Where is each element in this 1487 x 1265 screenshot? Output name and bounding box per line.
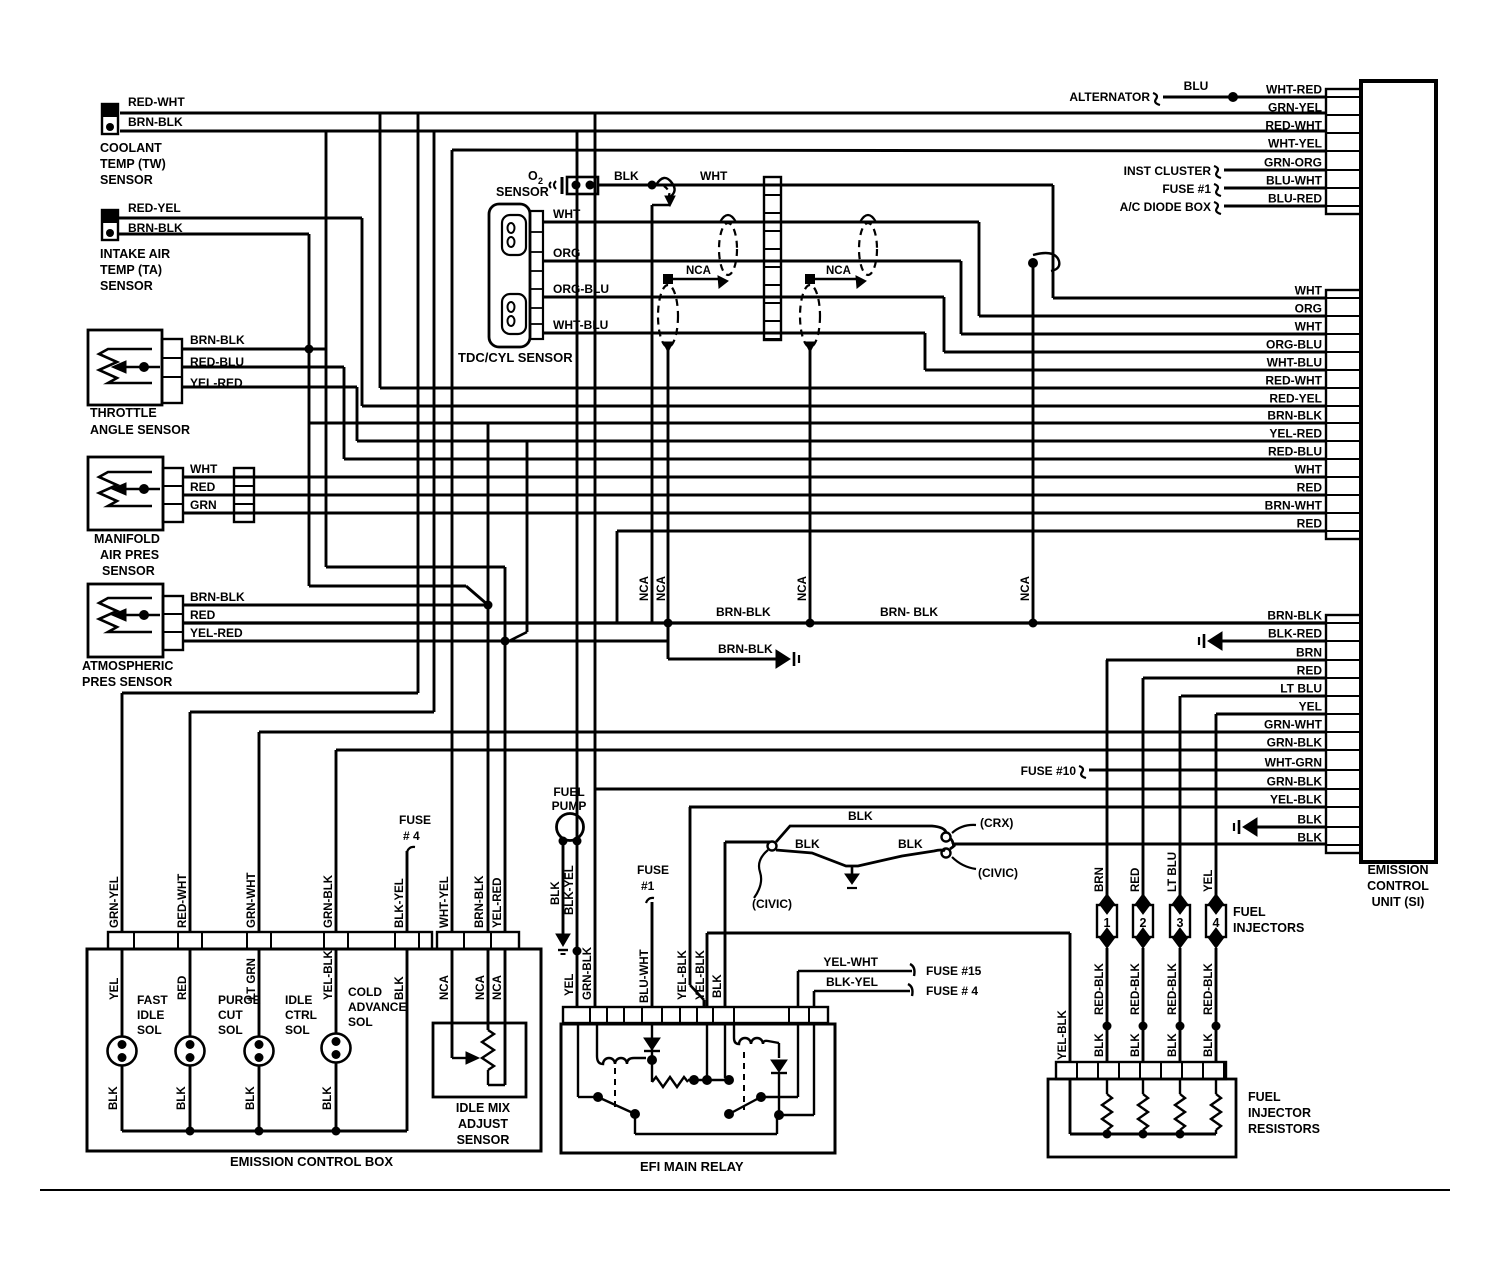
svg-text:NCA: NCA <box>826 265 851 277</box>
wire RED injector 2 vertical <box>1142 678 1145 896</box>
junction dot bus 1 <box>664 619 673 628</box>
svg-text:RED-WHT: RED-WHT <box>177 874 189 928</box>
alternator squiggle <box>1153 93 1160 105</box>
svg-text:WHT-YEL: WHT-YEL <box>439 876 451 928</box>
svg-text:PURGE: PURGE <box>218 993 261 1007</box>
svg-text:ATMOSPHERIC: ATMOSPHERIC <box>82 659 173 673</box>
wire BLU-WHT fuse#1 to ECU <box>1224 187 1326 190</box>
svg-text:FUEL: FUEL <box>1248 1090 1281 1104</box>
wire BLU alternator to ECU WHT-RED <box>1163 96 1326 99</box>
svg-text:EMISSION CONTROL BOX: EMISSION CONTROL BOX <box>230 1154 393 1169</box>
svg-text:BRN- BLK: BRN- BLK <box>880 605 938 619</box>
svg-text:FAST: FAST <box>137 993 168 1007</box>
svg-text:SENSOR: SENSOR <box>496 185 549 199</box>
svg-text:SENSOR: SENSOR <box>102 564 155 578</box>
svg-text:ORG-BLU: ORG-BLU <box>553 282 609 296</box>
wire RED-BLU throttle <box>182 366 344 369</box>
intake air temp sensor connector <box>102 210 118 240</box>
wire WHT tdc <box>543 221 979 224</box>
junction dot sol 3 <box>255 1127 264 1136</box>
wire RED atmospheric / BRN-BLK bus <box>183 621 1326 624</box>
fuel injector 1 <box>1097 905 1117 937</box>
harness wire BLK bottom <box>776 850 945 866</box>
wire WHT-GRN fuse10 to ECU <box>1089 769 1326 772</box>
svg-text:ADVANCE: ADVANCE <box>348 1000 406 1014</box>
wire GRN-YEL link <box>122 692 418 695</box>
wire YEL-WHT fuse15 <box>797 971 800 1007</box>
svg-text:1: 1 <box>1104 916 1111 930</box>
wire WHT-YEL long (y150) <box>452 150 1326 151</box>
svg-text:RED-WHT: RED-WHT <box>1265 374 1322 388</box>
wire YEL-BLK resistor feed <box>1069 933 1072 1062</box>
wire vertical coolant BRN-BLK <box>325 132 328 567</box>
svg-text:FUSE: FUSE <box>399 813 431 827</box>
svg-text:GRN: GRN <box>190 498 217 512</box>
relay switch 2 contact b <box>724 1109 734 1119</box>
wire BRN-BLK ground stub <box>667 623 670 659</box>
relay junction d2 <box>774 1110 784 1120</box>
relay junction r3 <box>724 1075 734 1085</box>
svg-text:GRN-BLK: GRN-BLK <box>582 946 594 1000</box>
svg-text:RED: RED <box>177 976 189 1000</box>
atmospheric pres sensor box <box>88 584 163 657</box>
wire BRN injector 1 vertical <box>1106 660 1109 896</box>
svg-text:FUSE #1: FUSE #1 <box>1162 182 1211 196</box>
relay coil 1 <box>596 1023 598 1056</box>
solenoid PURGE CUT SOL wire top <box>189 949 192 1037</box>
fuse1 arrow <box>646 898 654 903</box>
junction dot res 2 <box>1139 1130 1148 1139</box>
wire BRN-BLK to ECU <box>309 422 1326 425</box>
tall shield loop 1 <box>658 285 678 347</box>
emission box connector strip right <box>437 932 519 949</box>
fuel injector 4 <box>1206 905 1226 937</box>
wire RED-BLK injector 3 <box>1179 948 1182 1062</box>
svg-text:YEL-WHT: YEL-WHT <box>823 955 878 969</box>
TDC connector stubs <box>530 211 543 339</box>
throttle angle sensor box <box>88 330 162 405</box>
shield loop 2 <box>859 223 877 275</box>
wire vertical YEL-BLK pin2 <box>706 933 709 1007</box>
svg-text:ADJUST: ADJUST <box>458 1117 508 1131</box>
relay junction 1 <box>647 1055 657 1065</box>
svg-text:BLK: BLK <box>322 1086 334 1110</box>
civic right leader <box>952 857 976 869</box>
wire YEL-RED atmospheric <box>183 640 668 643</box>
wire NCA3 into box <box>504 949 507 1085</box>
svg-text:NCA: NCA <box>439 975 451 1000</box>
svg-text:BLK: BLK <box>614 169 639 183</box>
svg-text:# 4: # 4 <box>403 829 420 843</box>
relay switch 2 contact a <box>756 1092 766 1102</box>
O2 loop hook <box>656 178 675 197</box>
relay switch 1 contact a <box>593 1092 603 1102</box>
wire BRN-BLK/RED-WHT top long (y131) <box>120 130 1326 133</box>
wire horizontal BRN-BLK link <box>309 585 466 588</box>
svg-text:RED-BLK: RED-BLK <box>1094 963 1106 1015</box>
wire ORG to ECU <box>979 315 1326 318</box>
injector resistor 3 <box>1179 1079 1181 1094</box>
wire vertical GRN-BLK <box>335 750 338 932</box>
wire BRN-BLK intake horizontal <box>118 233 309 236</box>
junction dot injector 4 <box>1212 1022 1221 1031</box>
svg-text:BRN-BLK: BRN-BLK <box>474 875 486 928</box>
TDC/CYL sensor box <box>489 204 530 347</box>
ECU connector stub group 1 <box>1326 89 1361 214</box>
svg-text:YEL: YEL <box>564 974 576 996</box>
wire ORG tdc vertical <box>960 261 963 334</box>
svg-text:YEL: YEL <box>1299 700 1322 714</box>
svg-text:RED: RED <box>190 608 216 622</box>
idle mix resistor <box>482 1030 494 1070</box>
svg-text:BLU-WHT: BLU-WHT <box>1266 174 1323 188</box>
svg-text:YEL-BLK: YEL-BLK <box>1057 1009 1069 1060</box>
fuse4 arrow <box>407 847 415 852</box>
solenoid ground bus <box>122 1130 407 1133</box>
NCA pointer 1 <box>663 274 673 284</box>
injector resistor 4 <box>1215 1079 1217 1094</box>
fuel injector resistor box <box>1048 1079 1236 1157</box>
svg-text:GRN-BLK: GRN-BLK <box>1267 775 1323 789</box>
svg-text:BLK: BLK <box>795 837 820 851</box>
wire ORG tdc <box>543 260 961 263</box>
svg-text:YEL-RED: YEL-RED <box>1269 427 1322 441</box>
resistor ground bus <box>1070 1133 1216 1136</box>
junction dot sol 4 <box>332 1127 341 1136</box>
svg-text:BLK: BLK <box>898 837 923 851</box>
TDC coil 2 <box>502 294 526 334</box>
svg-text:(CIVIC): (CIVIC) <box>978 866 1018 880</box>
svg-text:BLK: BLK <box>1094 1033 1106 1057</box>
wire BLK ground to ECU <box>1257 826 1326 829</box>
fuse #10 squiggle <box>1079 766 1086 778</box>
svg-text:YEL-BLK: YEL-BLK <box>695 949 707 1000</box>
svg-text:WHT: WHT <box>1295 284 1323 298</box>
loop-dot connector d <box>1028 258 1038 268</box>
solenoid COLD ADVANCE SOL wire top <box>335 949 338 1034</box>
wire GRN-BLK2 to ECU <box>595 788 1326 791</box>
solenoid IDLE wire bottom <box>258 1065 261 1131</box>
harness wire BLK top <box>776 826 946 842</box>
svg-text:CONTROL: CONTROL <box>1367 879 1429 893</box>
ground symbol BLK-RED <box>1208 632 1222 650</box>
separator line <box>40 1189 1450 1191</box>
svg-text:FUSE: FUSE <box>637 863 669 877</box>
emission box connector strip left <box>108 932 432 949</box>
wire vertical GRN-BLK relay <box>594 112 597 1007</box>
solenoid FAST IDLE SOL wire top <box>121 949 124 1037</box>
svg-text:COLD: COLD <box>348 985 382 999</box>
harness connector bump right bottom <box>942 849 951 858</box>
wire GRN-BLK to ECU <box>336 749 1326 752</box>
wire RED2 to ECU <box>617 530 1326 533</box>
wire vertical YEL-RED to box <box>504 567 507 932</box>
harness connector bump right top <box>942 833 951 842</box>
relay switch 1 contact b <box>630 1109 640 1119</box>
injector resistor 1 <box>1106 1079 1108 1094</box>
wire LT BLU injector 3 vertical <box>1179 696 1182 896</box>
svg-text:YEL-BLK: YEL-BLK <box>677 949 689 1000</box>
svg-text:(CRX): (CRX) <box>980 816 1013 830</box>
svg-text:FUEL: FUEL <box>553 785 584 799</box>
wire BRN-BLK atmospheric <box>183 604 488 607</box>
harness connector bump left <box>768 842 777 851</box>
svg-text:BLK: BLK <box>550 881 562 905</box>
svg-text:NCA: NCA <box>475 975 487 1000</box>
svg-text:COOLANT: COOLANT <box>100 141 162 155</box>
manifold air pres sensor box <box>88 457 163 530</box>
svg-text:BLK: BLK <box>1167 1033 1179 1057</box>
wire GRN-WHT to ECU <box>259 731 1326 734</box>
svg-text:BLU-RED: BLU-RED <box>1268 192 1322 206</box>
svg-text:CTRL: CTRL <box>285 1008 317 1022</box>
wire BRN-BLK throttle <box>182 348 326 351</box>
wire NCA2 into box <box>487 949 490 1030</box>
svg-text:UNIT (SI): UNIT (SI) <box>1372 895 1425 909</box>
fuel pump <box>557 814 584 841</box>
relay switch 2 wire <box>761 1096 798 1098</box>
wire ORG-BLU tdc <box>543 296 944 299</box>
svg-text:BRN-BLK: BRN-BLK <box>190 333 245 347</box>
throttle sensor wiper arrow <box>139 362 149 372</box>
svg-text:TEMP (TW): TEMP (TW) <box>100 157 166 171</box>
svg-text:BLK-YEL: BLK-YEL <box>394 878 406 928</box>
wire NCA1 into box <box>451 949 454 1058</box>
throttle sensor potentiometer <box>99 349 152 383</box>
svg-text:SOL: SOL <box>218 1023 243 1037</box>
svg-text:YEL-BLK: YEL-BLK <box>323 949 335 1000</box>
wire ORG-BLU vertical <box>943 297 946 352</box>
crx leader <box>952 825 976 833</box>
svg-text:BLK: BLK <box>176 1086 188 1110</box>
wire BLK relay to harness <box>725 841 770 844</box>
ground symbol BRN-BLK <box>776 650 790 668</box>
solenoid COLD wire bottom <box>335 1062 338 1131</box>
manifold sensor wiper arrow <box>139 484 149 494</box>
svg-text:AIR PRES: AIR PRES <box>100 548 159 562</box>
wire RED-BLK injector 2 <box>1142 948 1145 1062</box>
ECU connector stub group 2 <box>1326 290 1361 539</box>
wire BLK pump <box>562 841 565 934</box>
wire BLU-RED diode box to ECU <box>1224 205 1326 208</box>
svg-text:LT BLU: LT BLU <box>1280 682 1322 696</box>
wire YEL-RED to ECU <box>357 440 1326 443</box>
O2 shield drop arrowhead <box>665 196 675 206</box>
wire BLK-YEL fuse4b <box>813 991 816 1007</box>
svg-text:BLK-RED: BLK-RED <box>1268 627 1322 641</box>
civic left leader <box>754 850 768 898</box>
relay pin YEL-BLK2 inside <box>706 1023 708 1080</box>
atmospheric connector stubs <box>163 596 183 650</box>
wire vertical BRN-BLK to box <box>487 422 490 932</box>
svg-text:INST CLUSTER: INST CLUSTER <box>1124 164 1212 178</box>
svg-text:ANGLE SENSOR: ANGLE SENSOR <box>90 423 190 437</box>
svg-text:TDC/CYL SENSOR: TDC/CYL SENSOR <box>458 350 573 365</box>
svg-text:SOL: SOL <box>348 1015 373 1029</box>
wire RED3 to ECU <box>1143 677 1326 680</box>
throttle connector stubs <box>162 339 182 403</box>
svg-text:YEL: YEL <box>109 978 121 1000</box>
junction dot injector 2 <box>1139 1022 1148 1031</box>
svg-text:TEMP (TA): TEMP (TA) <box>100 263 162 277</box>
wire vertical coolant RED-WHT <box>379 112 382 388</box>
central inline connector strip <box>764 177 781 340</box>
wire vertical riser B <box>433 131 436 712</box>
relay pin BLK inside <box>724 1023 726 1078</box>
wire GRN-ORG inst cluster to ECU <box>1224 169 1326 172</box>
relay switch 2 arm <box>731 1098 759 1113</box>
svg-text:BLK: BLK <box>712 974 724 998</box>
svg-text:3: 3 <box>1177 916 1184 930</box>
wire WHT tdc vertical <box>978 222 981 316</box>
wire vertical RED riser <box>616 531 619 623</box>
svg-text:(CIVIC): (CIVIC) <box>752 897 792 911</box>
idle mix arrow <box>452 1057 468 1059</box>
junction dot BRN-BLK link <box>484 601 493 610</box>
svg-text:BLK: BLK <box>1203 1033 1215 1057</box>
wire YEL-BLK resistor horiz <box>707 932 1070 935</box>
svg-text:WHT-BLU: WHT-BLU <box>553 318 608 332</box>
wire YEL to ECU <box>1216 713 1326 716</box>
svg-text:BRN-WHT: BRN-WHT <box>1265 499 1323 513</box>
svg-text:NCA: NCA <box>1020 576 1032 601</box>
wire ORG-BLU to ECU <box>944 351 1326 354</box>
solenoid IDLE CTRL SOL <box>245 1037 274 1066</box>
relay switch 1 arm <box>600 1098 633 1113</box>
svg-text:RED-YEL: RED-YEL <box>128 201 181 215</box>
svg-text:BLK: BLK <box>245 1086 257 1110</box>
NCA pointer 2 <box>805 274 815 284</box>
junction dot sol 2 <box>186 1127 195 1136</box>
relay bottom wire <box>634 1114 636 1134</box>
svg-text:SENSOR: SENSOR <box>457 1133 510 1147</box>
TDC coil 1 <box>502 215 526 255</box>
svg-text:PRES SENSOR: PRES SENSOR <box>82 675 172 689</box>
svg-text:WHT-YEL: WHT-YEL <box>1268 137 1322 151</box>
wire WHT-BLU tdc <box>543 332 925 335</box>
junction dot bus 2 <box>806 619 815 628</box>
junction dot injector 1 <box>1103 1022 1112 1031</box>
svg-text:WHT-GRN: WHT-GRN <box>1265 756 1322 770</box>
svg-text:SOL: SOL <box>285 1023 310 1037</box>
svg-text:SENSOR: SENSOR <box>100 173 153 187</box>
svg-text:FUEL: FUEL <box>1233 905 1266 919</box>
svg-text:WHT-RED: WHT-RED <box>1266 83 1322 97</box>
wire vertical YEL-BLK pin1 <box>689 807 692 985</box>
junction dot res 3 <box>1176 1130 1185 1139</box>
svg-text:RED: RED <box>190 480 216 494</box>
relay switch 2 dashed <box>743 1052 745 1110</box>
wire vertical intake RED-YEL <box>361 218 364 406</box>
ECU box Emission Control Unit (SI) <box>1361 81 1436 862</box>
svg-text:FUSE #10: FUSE #10 <box>1021 764 1077 778</box>
svg-text:MANIFOLD: MANIFOLD <box>94 532 160 546</box>
manifold sensor element <box>99 472 152 506</box>
svg-text:THROTTLE: THROTTLE <box>90 406 157 420</box>
wire RED manifold long <box>183 494 1326 497</box>
ECU connector stub group 3 <box>1326 615 1361 853</box>
injector resistor 2 <box>1142 1079 1144 1094</box>
svg-text:YEL-RED: YEL-RED <box>492 878 504 928</box>
svg-text:BLK: BLK <box>108 1086 120 1110</box>
pump ground symbol <box>556 934 570 946</box>
wire BLU-WHT fuse1 <box>651 902 654 1007</box>
svg-text:BRN-BLK: BRN-BLK <box>716 605 771 619</box>
svg-text:BLU-WHT: BLU-WHT <box>639 949 651 1003</box>
svg-text:WHT: WHT <box>700 169 728 183</box>
svg-text:RED: RED <box>1130 868 1142 892</box>
svg-text:GRN-BLK: GRN-BLK <box>323 874 335 928</box>
svg-text:SENSOR: SENSOR <box>100 279 153 293</box>
wire NCA vertical c shield <box>809 349 812 623</box>
svg-text:BRN: BRN <box>1094 867 1106 892</box>
relay diode 2 <box>771 1060 787 1072</box>
relay pin YEL inside <box>577 1023 579 1097</box>
junction dot res 1 <box>1103 1130 1112 1139</box>
svg-text:BLK: BLK <box>848 809 873 823</box>
svg-text:WHT-BLU: WHT-BLU <box>1267 356 1322 370</box>
relay diode 1 <box>651 1023 653 1058</box>
wire vertical GRN-WHT <box>258 732 261 932</box>
wire YEL-BLK to ECU <box>689 806 1326 809</box>
svg-text:FUSE # 4: FUSE # 4 <box>926 984 978 998</box>
junction dot YEL-RED link <box>501 637 510 646</box>
svg-text:SOL: SOL <box>137 1023 162 1037</box>
relay connector strip <box>563 1007 828 1023</box>
svg-text:ORG-BLU: ORG-BLU <box>1266 338 1322 352</box>
relay switch 1 dashed <box>614 1068 616 1112</box>
wire vertical BLK relay <box>724 842 727 1007</box>
solenoid IDLE CTRL SOL wire top <box>258 949 261 1037</box>
wire WHT to ECU <box>1053 297 1326 300</box>
solenoid FAST IDLE SOL <box>108 1037 137 1066</box>
coolant temp sensor connector <box>102 104 118 134</box>
resistor connector strip <box>1056 1062 1226 1079</box>
shield hat 1 <box>720 215 736 222</box>
solenoid PURGE wire bottom <box>189 1065 192 1131</box>
svg-text:BRN-BLK: BRN-BLK <box>718 642 773 656</box>
wire BLK-RED ground to ECU <box>1222 640 1326 643</box>
junction dot O2 BLK <box>648 181 657 190</box>
wire vertical throttle YEL-RED <box>356 387 359 441</box>
wire diagonal BRN-BLK link <box>466 586 488 605</box>
junction dot throttle BRN-BLK <box>305 345 314 354</box>
wire YEL-RED throttle <box>182 386 357 389</box>
junction dot bus 3 <box>1029 619 1038 628</box>
svg-text:FUSE #15: FUSE #15 <box>926 964 982 978</box>
solenoid COLD ADVANCE SOL <box>322 1034 351 1063</box>
svg-text:BLK: BLK <box>1297 831 1322 845</box>
fuse #1 squiggle <box>1214 184 1221 196</box>
svg-text:GRN-ORG: GRN-ORG <box>1264 156 1322 170</box>
wire RED-YEL intake horizontal <box>118 217 362 220</box>
relay resistor <box>651 1060 653 1082</box>
wire vertical coolant BRN-BLK down <box>576 131 579 1007</box>
atmospheric sensor element <box>99 598 152 632</box>
efi relay box <box>561 1024 835 1153</box>
relay wire d2 to pin <box>779 1114 814 1116</box>
svg-text:INTAKE AIR: INTAKE AIR <box>100 247 170 261</box>
a/c diode box squiggle <box>1214 202 1221 214</box>
svg-text:CUT: CUT <box>218 1008 243 1022</box>
svg-text:LT BLU: LT BLU <box>1167 852 1179 892</box>
junction dot alternator BLU <box>1228 92 1238 102</box>
wire WHT manifold long <box>183 476 1326 479</box>
svg-text:BRN-BLK: BRN-BLK <box>128 115 183 129</box>
wire vertical intake BRN-BLK <box>308 234 311 586</box>
svg-text:O: O <box>528 169 538 183</box>
svg-text:IDLE: IDLE <box>285 993 312 1007</box>
